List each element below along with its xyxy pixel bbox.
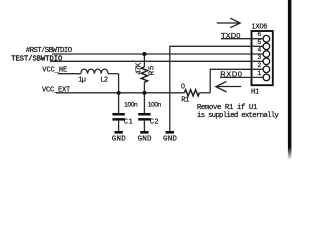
svg-text:5: 5 [257,39,261,46]
svg-text:L2: L2 [100,76,108,84]
svg-text:is supplied externally: is supplied externally [197,112,280,120]
svg-text:R5: R5 [149,65,157,75]
svg-text:VCC_EXT: VCC_EXT [42,86,70,94]
svg-text:C2: C2 [150,119,159,127]
svg-text:0: 0 [181,84,185,91]
svg-text:TEST/SBWTDIO: TEST/SBWTDIO [11,55,62,63]
svg-text:C1: C1 [124,119,133,127]
svg-text:VCC_HE: VCC_HE [42,66,67,74]
svg-text:#RST/SBWTDIO: #RST/SBWTDIO [26,47,73,55]
svg-text:4: 4 [257,47,261,54]
svg-text:100n: 100n [148,101,162,108]
svg-text:1µ: 1µ [78,76,86,84]
svg-text:3: 3 [257,54,261,61]
svg-text:6: 6 [257,31,261,38]
svg-text:Remove R1 if U1: Remove R1 if U1 [197,104,258,112]
svg-text:RXD0: RXD0 [220,70,242,79]
svg-text:GND: GND [138,136,152,144]
svg-text:GND: GND [163,136,177,144]
svg-text:H1: H1 [251,89,259,97]
svg-text:R1: R1 [181,97,189,105]
svg-text:GND: GND [112,136,126,144]
svg-text:1X06: 1X06 [252,24,268,31]
svg-text:2: 2 [257,62,261,69]
svg-text:100n: 100n [124,101,138,108]
svg-text:TXD0: TXD0 [221,31,241,40]
svg-text:47K: 47K [136,62,144,75]
svg-text:1: 1 [257,70,261,77]
